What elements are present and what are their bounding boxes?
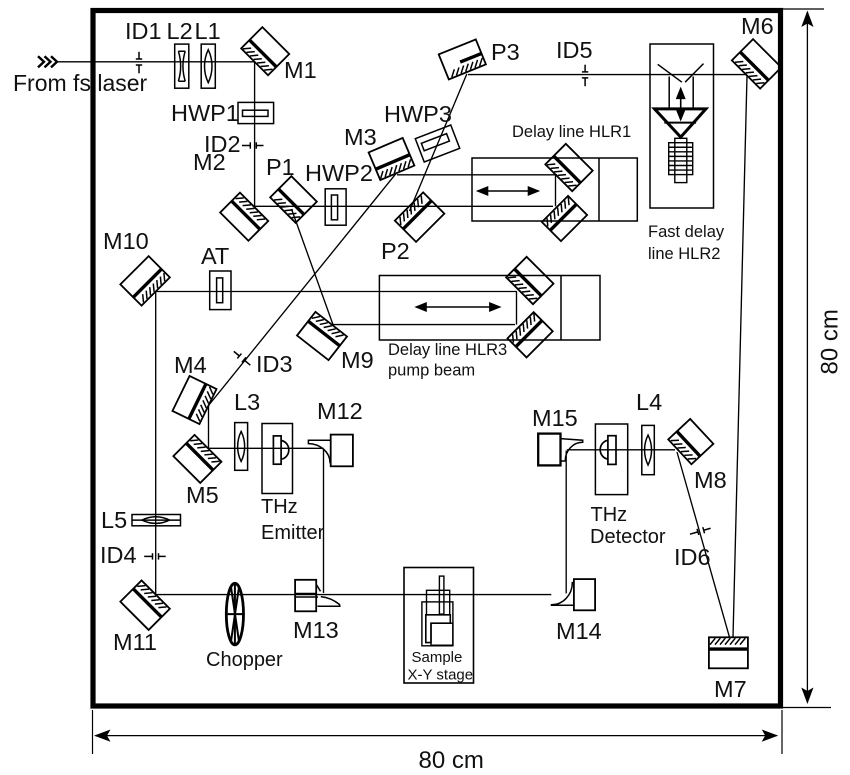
half-wave plate HWP2 bbox=[325, 189, 346, 225]
svg-text:HWP2: HWP2 bbox=[305, 160, 373, 186]
svg-text:ID2: ID2 bbox=[204, 131, 241, 157]
mirror M10 bbox=[120, 256, 169, 305]
svg-text:Fast delay: Fast delay bbox=[648, 223, 725, 241]
lens L3 bbox=[235, 423, 248, 471]
mirror M4 bbox=[172, 376, 216, 424]
iris diaphragm ID4 bbox=[144, 553, 166, 559]
mirror M7 bbox=[709, 637, 748, 668]
svg-text:L2: L2 bbox=[167, 18, 193, 44]
svg-text:Delay line HLR3: Delay line HLR3 bbox=[388, 341, 507, 359]
beam: M11 right through chopper, M13, sample to M14 bbox=[156, 594, 552, 596]
mirror M2 bbox=[220, 193, 268, 241]
svg-text:line HLR2: line HLR2 bbox=[648, 245, 720, 263]
svg-text:AT: AT bbox=[201, 243, 229, 269]
svg-text:M10: M10 bbox=[103, 228, 149, 254]
delay line HLR1 travel arrow bbox=[478, 187, 538, 195]
svg-text:80 cm: 80 cm bbox=[419, 747, 484, 774]
sample X-Y stage box bbox=[404, 568, 474, 684]
optical table border (80cm x 80cm) bbox=[93, 11, 781, 707]
attenuator AT bbox=[210, 271, 231, 310]
dimension extension line bottom-left bbox=[92, 710, 94, 754]
THz emitter box bbox=[262, 424, 293, 494]
svg-text:ID1: ID1 bbox=[125, 18, 162, 44]
horizontal dimension line 80cm bottom bbox=[96, 735, 777, 737]
svg-text:M3: M3 bbox=[344, 124, 377, 150]
delay line HLR1 box bbox=[472, 158, 637, 221]
THz detector box bbox=[595, 424, 627, 495]
svg-text:M6: M6 bbox=[741, 13, 774, 39]
THz detector chip bbox=[600, 436, 616, 465]
svg-text:M13: M13 bbox=[293, 617, 339, 643]
lens L5 bbox=[132, 515, 181, 526]
svg-text:Sample: Sample bbox=[412, 649, 463, 666]
svg-text:pump beam: pump beam bbox=[388, 362, 475, 380]
svg-text:M1: M1 bbox=[284, 57, 317, 83]
fast delay line HLR2 retroreflector V bbox=[658, 64, 704, 109]
beam: M10 right through AT to delay line HLR3 bbox=[156, 291, 517, 293]
beam: M2 right through P1, HWP2, P2 to delay line HLR1 bbox=[255, 205, 553, 207]
half-wave plate HWP1 bbox=[238, 102, 274, 123]
dimension extension line top-right bbox=[782, 8, 824, 10]
mirror M8 bbox=[668, 419, 713, 464]
svg-text:M4: M4 bbox=[174, 352, 207, 378]
polarizer P3 glyph bbox=[439, 39, 486, 79]
svg-text:X-Y stage: X-Y stage bbox=[408, 667, 474, 684]
beam: P1 diagonal down to M9 bbox=[292, 209, 334, 325]
fast delay line HLR2 box bbox=[650, 44, 714, 208]
lens L4 bbox=[642, 425, 655, 474]
lens L2 (concave) bbox=[175, 44, 189, 88]
polarizer P2 glyph bbox=[395, 192, 444, 241]
sample holder L-bracket bbox=[426, 615, 451, 643]
mirror M1 bbox=[241, 27, 289, 75]
polarizer P1 glyph bbox=[270, 176, 317, 223]
svg-text:ID6: ID6 bbox=[674, 544, 711, 570]
THz emitter chip bbox=[273, 436, 288, 464]
svg-text:HWP3: HWP3 bbox=[384, 101, 452, 127]
beam: M3 diagonal to M4 through ID3 bbox=[209, 173, 397, 405]
beam: P3 right through ID5, fast delay line HLR2 to M6 bbox=[468, 74, 746, 76]
beam: M6 down to M7 bbox=[733, 76, 747, 637]
svg-text:M14: M14 bbox=[556, 618, 602, 644]
beam: M9 right to delay line HLR3 bbox=[333, 324, 515, 326]
beam: M10 down to M11 through L5, ID4 bbox=[155, 292, 157, 595]
beam: M4 down to M5 bbox=[208, 406, 210, 449]
vertical dimension line 80cm right side bbox=[806, 12, 808, 703]
half-wave plate HWP3 bbox=[415, 125, 459, 162]
dimension extension line bottom-right horizontal bbox=[783, 707, 831, 709]
delay line HLR3 box bbox=[379, 276, 600, 341]
beam: M12 down to M13 bbox=[323, 449, 325, 593]
mirror M11 bbox=[120, 580, 169, 629]
svg-text:Chopper: Chopper bbox=[206, 649, 283, 671]
svg-text:M8: M8 bbox=[694, 467, 727, 493]
sample square bbox=[431, 623, 453, 645]
sample holder clamp bbox=[427, 590, 450, 615]
fast delay line shaker motion arrow bbox=[677, 89, 685, 120]
svg-text:HWP1: HWP1 bbox=[171, 100, 239, 126]
svg-text:P1: P1 bbox=[266, 154, 295, 180]
iris diaphragm ID5 bbox=[582, 65, 588, 87]
dimension extension line bottom-right bbox=[781, 710, 783, 754]
svg-text:THz: THz bbox=[591, 504, 628, 526]
svg-text:L5: L5 bbox=[101, 507, 127, 533]
svg-text:Detector: Detector bbox=[590, 526, 666, 548]
delay line HLR3 retroreflector mirror lower bbox=[507, 312, 552, 357]
svg-text:M9: M9 bbox=[341, 347, 374, 373]
mirror M6 bbox=[732, 39, 781, 88]
iris diaphragm ID6 bbox=[689, 525, 711, 537]
svg-text:L3: L3 bbox=[234, 389, 260, 415]
mirror M5 bbox=[173, 435, 221, 483]
parabolic mirror M14 bbox=[552, 579, 596, 610]
svg-text:M15: M15 bbox=[532, 405, 578, 431]
beam: P3 diagonal down to P2 through HWP3 bbox=[410, 74, 467, 211]
chopper wheel bbox=[226, 583, 243, 645]
iris diaphragm ID1 bbox=[136, 52, 142, 74]
fast delay line voice-coil stack bbox=[669, 138, 693, 182]
iris diaphragm ID3 bbox=[232, 349, 253, 368]
svg-text:L1: L1 bbox=[195, 18, 221, 44]
delay line HLR3 travel arrow bbox=[417, 303, 500, 311]
svg-text:ID4: ID4 bbox=[100, 542, 137, 568]
laser input chevrons bbox=[38, 56, 57, 67]
delay line HLR3 retroreflector mirror upper bbox=[506, 257, 553, 304]
svg-text:M7: M7 bbox=[714, 676, 747, 702]
fast delay line shaker cone bbox=[655, 109, 706, 137]
parabolic mirror M12 bbox=[308, 435, 353, 467]
svg-text:Delay line HLR1: Delay line HLR1 bbox=[512, 123, 631, 141]
mirror M3 bbox=[369, 138, 415, 180]
svg-text:From fs laser: From fs laser bbox=[13, 70, 148, 96]
beam: M5 right through L3, THz emitter to M12 bbox=[209, 447, 324, 449]
svg-text:M12: M12 bbox=[317, 398, 363, 424]
sample holder body bbox=[422, 602, 453, 646]
svg-text:ID3: ID3 bbox=[256, 351, 293, 377]
svg-text:ID5: ID5 bbox=[556, 37, 593, 63]
lens L1 bbox=[201, 44, 215, 88]
svg-text:M5: M5 bbox=[186, 482, 219, 508]
beam: M8 left through L4, THz detector to M15 bbox=[567, 449, 675, 451]
parabolic mirror M15 bbox=[538, 434, 583, 466]
mirror M9 bbox=[297, 312, 347, 360]
beam: M8 down to M7 through ID6 bbox=[677, 452, 730, 637]
svg-text:80 cm: 80 cm bbox=[817, 309, 844, 374]
svg-text:L4: L4 bbox=[636, 389, 662, 415]
svg-text:M11: M11 bbox=[113, 629, 157, 655]
svg-text:P3: P3 bbox=[491, 39, 520, 65]
delay line HLR1 retroreflector mirror upper bbox=[545, 144, 592, 191]
svg-text:Emitter: Emitter bbox=[261, 522, 325, 544]
svg-text:THz: THz bbox=[261, 496, 298, 518]
beam: M1 down to M2 through HWP1, ID2 bbox=[254, 62, 256, 207]
svg-text:P2: P2 bbox=[381, 238, 410, 264]
iris diaphragm ID2 bbox=[242, 142, 264, 148]
parabolic mirror M13 bbox=[295, 580, 340, 612]
delay line HLR1 inner carriage edge bbox=[555, 175, 557, 207]
delay line HLR1 retroreflector mirror lower bbox=[542, 196, 587, 241]
delay line HLR3 inner carriage edge bbox=[516, 292, 518, 325]
beam: from fs laser to M1 bbox=[57, 61, 255, 63]
beam: M15 down to M14 bbox=[565, 451, 567, 594]
beam: delay line HLR1 return to M3 bbox=[397, 174, 557, 176]
sample holder post bbox=[439, 576, 444, 614]
